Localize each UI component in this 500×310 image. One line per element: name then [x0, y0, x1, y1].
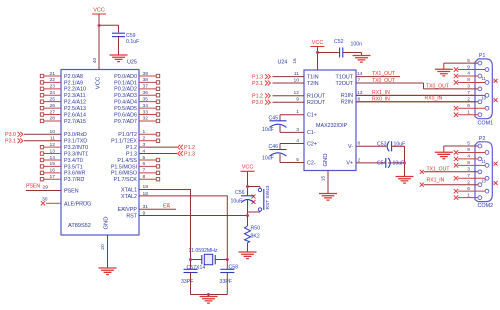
- svg-text:22: 22: [50, 77, 56, 83]
- svg-text:T1OUT: T1OUT: [335, 74, 353, 80]
- svg-text:P3.1/TXD: P3.1/TXD: [64, 139, 87, 145]
- wire VCC down to reset network: [247, 171, 249, 196]
- pin 17 P3.7/RD stub: [40, 174, 84, 183]
- pin 32 P0.7/AD7 stub: [114, 116, 160, 125]
- svg-text:R1OUT: R1OUT: [307, 94, 326, 100]
- port label P1.2 at U24: [252, 93, 270, 99]
- svg-text:V+: V+: [346, 161, 353, 167]
- svg-text:P0.6/AD6: P0.6/AD6: [114, 112, 137, 118]
- pin 4 C2+ stub: [280, 138, 317, 147]
- svg-text:P0.5/AD5: P0.5/AD5: [114, 106, 137, 112]
- P1 pin holes right column: [485, 68, 489, 72]
- svg-text:P0.4/AD4: P0.4/AD4: [114, 100, 137, 106]
- pin 36 P0.3/AD3 stub: [114, 90, 160, 99]
- svg-text:RX1_IN: RX1_IN: [427, 177, 445, 183]
- pin 33 P0.6/AD6 stub: [114, 109, 160, 118]
- svg-text:1: 1: [467, 109, 470, 115]
- svg-text:R2IN: R2IN: [341, 100, 353, 106]
- svg-text:P1.5/MOSI: P1.5/MOSI: [111, 164, 137, 170]
- wire joining crystal caps: [191, 294, 228, 296]
- svg-text:8: 8: [467, 160, 470, 166]
- svg-text:9: 9: [296, 97, 299, 103]
- svg-text:P0.3/AD3: P0.3/AD3: [114, 93, 137, 99]
- svg-text:C53: C53: [377, 141, 387, 147]
- svg-text:P2: P2: [479, 136, 485, 142]
- pin 14 T1OUT wire: [335, 71, 400, 81]
- capacitor C54 10uF: [386, 158, 405, 168]
- svg-text:P1.2: P1.2: [252, 94, 263, 100]
- svg-text:V-: V-: [348, 144, 353, 150]
- svg-text:P3.1: P3.1: [5, 139, 16, 145]
- svg-text:9: 9: [467, 147, 470, 153]
- svg-text:C1+: C1+: [307, 113, 317, 119]
- svg-text:U25: U25: [127, 60, 137, 66]
- P2 pin 6 no-connect stub: [458, 190, 485, 192]
- svg-text:6: 6: [358, 141, 361, 147]
- svg-text:P0.2/AD2: P0.2/AD2: [114, 87, 137, 93]
- port label P3.1: [5, 138, 23, 144]
- svg-text:33: 33: [143, 109, 149, 115]
- svg-text:R1IN: R1IN: [341, 93, 353, 99]
- svg-text:5: 5: [467, 58, 470, 64]
- wire VCC to pin 16: [317, 47, 319, 71]
- wire to switch top: [248, 186, 261, 188]
- svg-text:12: 12: [50, 142, 56, 148]
- svg-text:C2+: C2+: [307, 141, 317, 147]
- svg-text:5: 5: [143, 155, 146, 161]
- pin 8 R2IN wire RX0_IN: [341, 96, 478, 105]
- svg-text:VCC: VCC: [93, 8, 105, 14]
- svg-text:P2.1/A9: P2.1/A9: [64, 80, 83, 86]
- svg-text:P2.6/A14: P2.6/A14: [64, 112, 86, 118]
- svg-text:37: 37: [143, 84, 149, 90]
- IC U24 MAX232/DIP body: [304, 70, 356, 171]
- svg-text:10uF: 10uF: [262, 156, 274, 162]
- pin 9 RST: [126, 211, 145, 220]
- svg-text:R2OUT: R2OUT: [307, 100, 326, 106]
- P2 pin 8 no-connect stub: [458, 164, 485, 166]
- svg-text:PSEN: PSEN: [26, 184, 40, 190]
- P1 pin 5 ground wire: [444, 62, 478, 64]
- svg-text:P3.5/T1: P3.5/T1: [64, 164, 83, 170]
- pin 10 P3.0/RxD stub: [24, 129, 87, 138]
- pin 13 P3.3/INT1 stub: [40, 148, 88, 157]
- pin 16 P3.6/WR stub: [40, 168, 85, 177]
- ground below C53/C54: [396, 177, 414, 184]
- svg-text:AT89S52: AT89S52: [68, 223, 91, 229]
- svg-text:MAX232/DIP: MAX232/DIP: [316, 123, 348, 129]
- svg-text:7: 7: [143, 168, 146, 174]
- svg-text:P1.0/T2: P1.0/T2: [118, 132, 137, 138]
- svg-text:33PF: 33PF: [181, 279, 193, 285]
- pin 4 P1.3 stub: [126, 148, 177, 157]
- svg-text:8K2: 8K2: [251, 234, 260, 240]
- svg-text:P0.1/AD1: P0.1/AD1: [114, 80, 137, 86]
- svg-text:33PF: 33PF: [220, 279, 232, 285]
- svg-text:R50: R50: [251, 226, 261, 232]
- svg-text:10uF: 10uF: [393, 160, 405, 166]
- pin 37 P0.2/AD2 stub: [114, 84, 160, 93]
- pin 29 PSEN: [26, 184, 79, 194]
- ground below R50: [239, 252, 257, 259]
- svg-text:30: 30: [42, 196, 48, 202]
- svg-text:16: 16: [292, 58, 298, 64]
- wire XTAL2 to crystal: [139, 196, 227, 260]
- wire RST from pin 9: [139, 215, 248, 217]
- wire C52 to ground: [343, 52, 362, 54]
- port label P1.2: [178, 145, 195, 151]
- svg-text:13: 13: [50, 148, 56, 154]
- svg-text:34: 34: [143, 103, 149, 109]
- svg-text:14: 14: [50, 155, 56, 161]
- svg-text:XTAL1: XTAL1: [121, 187, 137, 193]
- junction crystal ground: [207, 293, 210, 296]
- svg-text:P3.2/INT0: P3.2/INT0: [64, 145, 88, 151]
- svg-text:T2OUT: T2OUT: [335, 81, 353, 87]
- port label P3.0: [5, 132, 23, 138]
- svg-text:5: 5: [467, 141, 470, 147]
- pin 38 P0.1/AD1 stub: [114, 77, 160, 86]
- svg-text:2: 2: [358, 157, 361, 163]
- P1 shield pin 10 no-connect: [492, 99, 493, 101]
- wire switch bottom to node: [259, 210, 261, 213]
- svg-text:8: 8: [143, 174, 146, 180]
- svg-text:11: 11: [482, 159, 487, 164]
- P2 pin 2 signal wire RX1_IN: [424, 184, 479, 186]
- P2 pin holes left column: [478, 144, 482, 148]
- svg-text:C54: C54: [377, 160, 387, 166]
- capacitor C58 33PF: [220, 260, 234, 295]
- no-connect at RX1_IN wire start: [420, 183, 424, 187]
- no-connect at TX1_OUT wire start: [420, 170, 424, 174]
- svg-text:2: 2: [467, 97, 470, 103]
- svg-text:C52: C52: [334, 39, 344, 45]
- svg-text:7: 7: [467, 173, 470, 179]
- svg-text:6: 6: [467, 103, 470, 109]
- P1 pin 1 no-connect stub: [458, 114, 478, 116]
- svg-text:40: 40: [92, 58, 98, 64]
- pin 27 P2.6/A14 stub: [40, 109, 86, 118]
- svg-text:GND: GND: [104, 216, 110, 229]
- pin 26 P2.5/A13 stub: [40, 103, 86, 112]
- svg-text:P1.3: P1.3: [184, 151, 195, 157]
- node XTAL2/crystal junction: [226, 258, 229, 261]
- svg-text:P1.7/SCK: P1.7/SCK: [114, 177, 138, 183]
- svg-text:VCC: VCC: [96, 76, 102, 89]
- P1 pin 3 signal wire TX0_OUT: [424, 88, 479, 90]
- connector P1 DB9 shell: [475, 59, 492, 119]
- IC U25 AT89S52 microcontroller body: [61, 70, 139, 236]
- capacitor C59: [112, 32, 125, 34]
- port label P3.0 at U24: [252, 100, 270, 106]
- P2 pin 9 no-connect stub: [458, 151, 485, 153]
- pin 10 T2IN wire from P3.1: [273, 77, 319, 86]
- pin 1 C1+ stub: [280, 109, 317, 118]
- ground below C59: [110, 55, 128, 62]
- svg-text:38: 38: [143, 77, 149, 83]
- svg-text:10uF: 10uF: [231, 198, 243, 204]
- pin 31 EA/VPP: [118, 204, 149, 213]
- svg-text:P3.3/INT1: P3.3/INT1: [64, 151, 88, 157]
- svg-text:4: 4: [143, 148, 146, 154]
- svg-text:XTAL2: XTAL2: [121, 194, 137, 200]
- svg-text:11: 11: [482, 76, 487, 81]
- svg-text:11: 11: [294, 71, 299, 77]
- junction RST node: [246, 214, 249, 217]
- wire to capacitor C52: [318, 52, 339, 54]
- svg-text:1: 1: [467, 192, 470, 198]
- svg-text:P3.7/RD: P3.7/RD: [64, 177, 84, 183]
- svg-text:COM2: COM2: [478, 203, 494, 209]
- svg-text:4: 4: [467, 71, 470, 77]
- svg-text:29: 29: [43, 184, 49, 190]
- P2 pin 1 no-connect stub: [458, 197, 478, 199]
- P1 pin 7 signal wire RX1_IN: [356, 94, 485, 96]
- svg-text:P2.7/A15: P2.7/A15: [64, 119, 86, 125]
- svg-text:C45: C45: [269, 116, 279, 122]
- svg-text:COM1: COM1: [478, 120, 494, 126]
- pin 3 P1.2 stub: [126, 142, 177, 151]
- port label P3.1 at U24: [252, 81, 270, 87]
- svg-text:21: 21: [50, 71, 56, 77]
- svg-text:TX0_OUT: TX0_OUT: [372, 78, 395, 84]
- svg-text:P1.1/T2EX: P1.1/T2EX: [111, 139, 137, 145]
- svg-text:2: 2: [143, 136, 146, 142]
- P1 shield pin 11 no-connect: [492, 80, 493, 82]
- svg-text:3: 3: [467, 167, 470, 173]
- svg-text:P3.0/RxD: P3.0/RxD: [64, 132, 87, 138]
- crystal X14 11.0592MHz: [191, 254, 228, 264]
- svg-text:17: 17: [50, 174, 56, 180]
- svg-text:4: 4: [296, 138, 299, 144]
- svg-text:3: 3: [143, 142, 146, 148]
- P2 shield pin 11 no-connect: [492, 163, 493, 165]
- svg-text:EA: EA: [163, 204, 170, 210]
- pin 2 V+ wire: [346, 157, 385, 166]
- pin 22 P2.1/A9 stub: [40, 77, 83, 86]
- svg-text:C1-: C1-: [307, 130, 316, 136]
- svg-text:P2.4/A12: P2.4/A12: [64, 100, 86, 106]
- svg-text:C46: C46: [269, 144, 279, 150]
- junction VCC/C52: [316, 51, 319, 54]
- P2 pin 3 signal wire TX1_OUT: [424, 171, 479, 173]
- svg-text:P0.0/AD0: P0.0/AD0: [114, 74, 137, 80]
- pin 15 GND of U24: [321, 171, 329, 194]
- pin 30 ALE/PROG with no-connect: [41, 196, 92, 207]
- svg-text:P2.0/A8: P2.0/A8: [64, 74, 83, 80]
- pin 6 V- wire: [348, 141, 386, 150]
- P2 shield pin 10 no-connect: [492, 182, 493, 184]
- ground below pin 20: [99, 268, 117, 275]
- port label P1.3: [178, 151, 195, 157]
- svg-text:P2.2/A10: P2.2/A10: [64, 87, 86, 93]
- svg-text:26: 26: [50, 103, 56, 109]
- svg-text:P0.7/AD7: P0.7/AD7: [114, 119, 137, 125]
- svg-text:P3.0: P3.0: [5, 132, 16, 138]
- pin 7 T2OUT wire TX0_OUT: [335, 78, 423, 89]
- wire to capacitor C59: [99, 24, 119, 26]
- svg-text:EA/VPP: EA/VPP: [118, 207, 138, 213]
- svg-text:12: 12: [294, 90, 300, 96]
- pin 34 P0.5/AD5 stub: [114, 103, 160, 112]
- capacitor C52 100n: [339, 48, 341, 58]
- svg-text:VCC: VCC: [242, 165, 254, 171]
- svg-text:1: 1: [143, 129, 146, 135]
- pin 12 R1OUT wire to P1.2: [273, 90, 326, 99]
- svg-text:C58: C58: [229, 265, 239, 271]
- P1 pin 4 no-connect stub: [458, 75, 478, 77]
- capacitor C45 10uF: [270, 115, 287, 133]
- svg-text:P1: P1: [479, 53, 485, 59]
- svg-text:15: 15: [50, 161, 56, 167]
- svg-text:P3.0: P3.0: [252, 100, 263, 106]
- P1 pin 9 no-connect stub: [458, 69, 485, 71]
- wire VCC to pin 40: [98, 14, 100, 70]
- port label P1.3 at U24: [252, 74, 270, 80]
- svg-text:11.0592MHz: 11.0592MHz: [189, 248, 218, 254]
- svg-text:TX1_OUT: TX1_OUT: [427, 166, 450, 172]
- pin 3 C1- stub: [280, 127, 316, 136]
- svg-text:RX0_IN: RX0_IN: [425, 96, 443, 102]
- P1 pin 6 no-connect stub: [458, 107, 485, 109]
- P2 pin holes right column: [485, 151, 489, 155]
- svg-text:32: 32: [143, 116, 149, 122]
- svg-text:2: 2: [467, 179, 470, 185]
- svg-text:C2-: C2-: [307, 160, 316, 166]
- wire EA pin 31: [139, 208, 176, 210]
- pin 39 P0.0/AD0 stub: [114, 71, 160, 80]
- svg-text:35: 35: [143, 96, 149, 102]
- svg-text:16: 16: [50, 168, 56, 174]
- svg-text:23: 23: [50, 84, 56, 90]
- svg-text:P1.2: P1.2: [184, 145, 195, 151]
- wire pin 20 GND: [107, 235, 109, 268]
- capacitor C46 10uF: [270, 144, 287, 163]
- svg-text:25: 25: [50, 96, 56, 102]
- svg-text:P2.5/A13: P2.5/A13: [64, 106, 86, 112]
- svg-text:100n: 100n: [351, 42, 363, 48]
- svg-text:10: 10: [50, 129, 56, 135]
- junction V+ cap ground node: [403, 161, 406, 164]
- svg-text:C57X14: C57X14: [187, 265, 206, 271]
- pin 9 R2OUT wire to P3.0: [273, 97, 326, 106]
- svg-text:3: 3: [296, 127, 299, 133]
- P2 pin 5 ground wire: [444, 145, 478, 147]
- pin 8 P1.7/SCK stub: [114, 174, 160, 183]
- switch SW43 reset push-button: [258, 188, 264, 211]
- svg-text:P1.6/MISO: P1.6/MISO: [111, 171, 137, 177]
- pin 11 T1IN wire from P1.3: [273, 71, 319, 80]
- svg-text:P3.1: P3.1: [252, 81, 263, 87]
- junction VCC/C59: [98, 24, 101, 27]
- pin 15 P3.5/T1 stub: [40, 161, 82, 170]
- svg-text:RST: RST: [126, 213, 137, 219]
- P2 pin 4 no-connect stub: [458, 158, 478, 160]
- svg-text:C56: C56: [235, 190, 245, 196]
- svg-text:7: 7: [358, 78, 361, 84]
- svg-text:T2IN: T2IN: [307, 81, 319, 87]
- pin 11 P3.1/TXD stub: [24, 136, 87, 145]
- svg-text:U24: U24: [278, 60, 288, 66]
- pin 35 P0.4/AD4 stub: [114, 96, 160, 105]
- svg-text:9: 9: [467, 64, 470, 70]
- svg-text:27: 27: [50, 109, 56, 115]
- ground below crystal caps: [208, 295, 210, 297]
- svg-text:15: 15: [321, 176, 327, 182]
- capacitor C56 10uF: [241, 196, 254, 216]
- svg-text:20: 20: [100, 244, 106, 250]
- svg-text:P1.4/SS: P1.4/SS: [117, 158, 137, 164]
- svg-text:P1.3: P1.3: [126, 151, 137, 157]
- P2 pin 7 no-connect stub: [458, 177, 485, 179]
- svg-text:10uF: 10uF: [394, 141, 406, 147]
- ground below U24: [319, 194, 337, 201]
- svg-text:36: 36: [143, 90, 149, 96]
- svg-text:TX1_OUT: TX1_OUT: [372, 71, 395, 77]
- svg-text:10: 10: [294, 77, 300, 83]
- no-connect marks on switch: [252, 195, 256, 199]
- svg-text:6: 6: [467, 186, 470, 192]
- pin 14 P3.4/T0 stub: [40, 155, 82, 164]
- pin 1 P1.0/T2 stub: [118, 129, 159, 138]
- svg-text:P2.3/A11: P2.3/A11: [64, 93, 86, 99]
- svg-text:7: 7: [467, 90, 470, 96]
- node XTAL1/crystal junction: [189, 258, 192, 261]
- pin 25 P2.4/A12 stub: [40, 96, 86, 105]
- svg-text:24: 24: [50, 90, 56, 96]
- ground right of C52: [353, 56, 371, 63]
- svg-text:4: 4: [467, 154, 470, 160]
- pin 13 R1IN wire RX1_IN: [341, 90, 484, 99]
- pin 5 P1.4/SS stub: [117, 155, 159, 164]
- svg-text:P1.2: P1.2: [126, 145, 137, 151]
- svg-text:14: 14: [357, 71, 363, 77]
- pin 12 P3.2/INT0 stub: [40, 142, 88, 151]
- P1 pin 8 no-connect stub: [458, 81, 485, 83]
- pin 21 P2.0/A8 stub: [40, 71, 83, 80]
- svg-text:TX0_OUT: TX0_OUT: [426, 83, 449, 89]
- svg-text:39: 39: [143, 71, 149, 77]
- junction switch branch top: [246, 185, 249, 188]
- pin 7 P1.6/MISO stub: [111, 168, 160, 177]
- svg-text:8: 8: [467, 77, 470, 83]
- svg-text:ALE/PROG: ALE/PROG: [64, 202, 91, 208]
- svg-text:5: 5: [296, 157, 299, 163]
- capacitor C53 10uF: [387, 141, 404, 151]
- svg-text:10uF: 10uF: [262, 127, 274, 133]
- pin 23 P2.2/A10 stub: [40, 84, 86, 93]
- pin 18 XTAL2: [121, 191, 148, 200]
- pin 28 P2.7/A15 stub: [40, 116, 86, 125]
- pin 24 P2.3/A11 stub: [40, 90, 85, 99]
- svg-text:28: 28: [50, 116, 56, 122]
- pin 5 C2- stub: [280, 157, 316, 166]
- capacitor C57 33PF: [184, 260, 198, 295]
- wire XTAL1 to crystal: [139, 190, 191, 260]
- svg-text:10: 10: [481, 178, 486, 183]
- pin 19 XTAL1: [121, 184, 148, 193]
- svg-text:P1.3: P1.3: [252, 74, 263, 80]
- pin 2 P1.1/T2EX stub: [111, 136, 160, 145]
- resistor R50 8K2: [245, 216, 251, 253]
- svg-text:PSEN: PSEN: [64, 189, 79, 195]
- P1 pin 2 signal wire RX0_IN: [356, 101, 478, 103]
- svg-text:6: 6: [143, 161, 146, 167]
- pin 6 P1.5/MOSI stub: [111, 161, 160, 170]
- wire V-/V+ caps to ground: [404, 146, 406, 176]
- svg-text:P3.4/T0: P3.4/T0: [64, 158, 83, 164]
- svg-text:GND: GND: [323, 153, 329, 166]
